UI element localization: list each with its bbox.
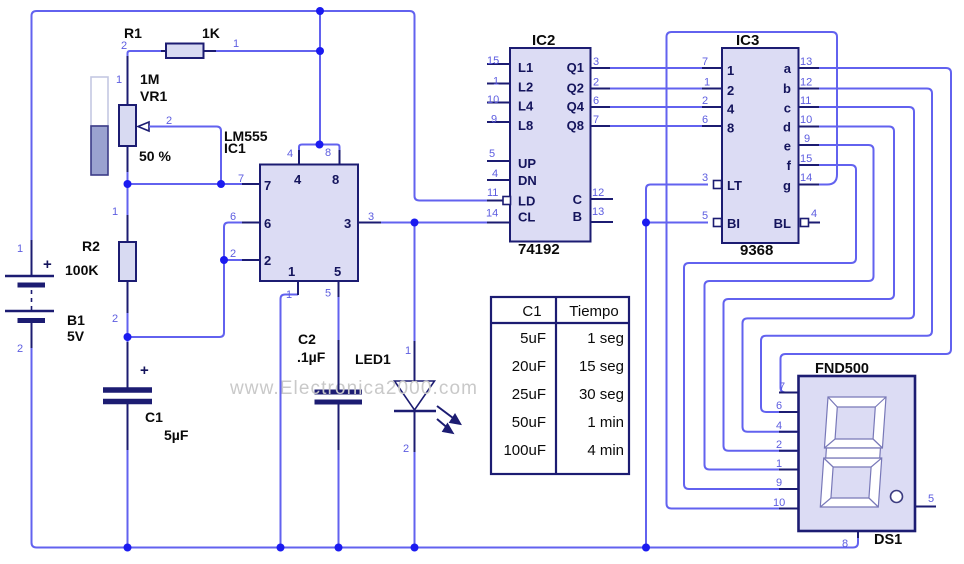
- wire into IC1 pin 2: [224, 259, 260, 261]
- svg-text:L1: L1: [518, 60, 533, 75]
- svg-text:L4: L4: [518, 99, 534, 114]
- svg-text:7: 7: [264, 178, 271, 193]
- pin IC3 1 (7) stub: [702, 67, 722, 69]
- svg-text:14: 14: [486, 208, 498, 220]
- lead LED1 anode: [414, 341, 416, 381]
- svg-text:6: 6: [702, 114, 708, 126]
- wire node VR1-bottom / R2-top to IC1 pin 7: [128, 183, 246, 185]
- node dot LT/BI: [642, 219, 650, 227]
- svg-text:7: 7: [593, 114, 599, 126]
- svg-text:www.Electronica2000.com: www.Electronica2000.com: [229, 378, 478, 399]
- svg-text:CL: CL: [518, 210, 535, 225]
- svg-text:1: 1: [288, 264, 295, 279]
- svg-text:6: 6: [776, 400, 782, 412]
- wire VR1 bottom to R2 top: [127, 146, 129, 215]
- op-amp/timer IC1 LM555 body: [260, 165, 358, 282]
- potentiometer VR1 body: [119, 105, 136, 146]
- pin IC3 b (12) stub: [799, 88, 820, 90]
- wire V+ rail: left border, top rail, down to IC2 pin LD: [32, 11, 489, 241]
- pin DS1 2 stub: [779, 450, 799, 452]
- svg-text:R2: R2: [82, 238, 100, 254]
- battery B1 plate 2 (short thick): [18, 283, 46, 288]
- svg-text:1M: 1M: [140, 71, 159, 87]
- pin DS1 8 stub: [857, 531, 859, 538]
- wire IC3 seg g (pin14) around top to DS1 pin 10: [667, 32, 838, 509]
- svg-text:100K: 100K: [65, 262, 98, 278]
- node dot ground LED1: [411, 544, 419, 552]
- svg-text:DN: DN: [518, 173, 537, 188]
- svg-text:10: 10: [800, 114, 812, 126]
- wire R1 right lead to V+ node: [204, 50, 321, 52]
- display DS1 FND500 body: [799, 376, 916, 531]
- wire IC3 seg e (pin9) to DS1 pin 1: [705, 145, 874, 470]
- svg-text:1: 1: [776, 458, 782, 470]
- svg-text:7: 7: [779, 381, 785, 393]
- svg-text:9: 9: [491, 114, 497, 126]
- svg-text:50uF: 50uF: [512, 414, 546, 431]
- svg-text:5: 5: [489, 148, 495, 160]
- svg-text:LT: LT: [727, 178, 742, 193]
- pin DS1 10 stub: [779, 508, 799, 510]
- pin DS1 6 stub: [779, 411, 799, 413]
- svg-text:VR1: VR1: [140, 88, 167, 104]
- resistor R2 body: [119, 242, 136, 281]
- svg-text:1 seg: 1 seg: [587, 330, 624, 347]
- wire IC1 pin 1 to ground rail: [281, 295, 299, 548]
- pin IC1 7 stub: [242, 183, 260, 185]
- svg-text:2: 2: [264, 253, 271, 268]
- svg-text:2: 2: [121, 40, 127, 52]
- svg-text:3: 3: [368, 211, 374, 223]
- lead VR1 bottom: [127, 146, 129, 172]
- svg-text:15 seg: 15 seg: [579, 358, 624, 375]
- pin IC2 CL (14) stub: [487, 222, 510, 224]
- svg-text:DS1: DS1: [874, 532, 902, 548]
- svg-text:c: c: [784, 101, 791, 116]
- wire IC3 seg d (pin10) to DS1 pin 2: [724, 127, 895, 451]
- svg-text:UP: UP: [518, 156, 536, 171]
- svg-text:5µF: 5µF: [164, 427, 189, 443]
- LED1 light arrow 2: [437, 419, 450, 430]
- wire R1 left lead corner to VR1 top: [128, 51, 167, 58]
- wire IC3 seg f (pin15) to DS1 pin 9: [684, 165, 856, 489]
- wire C2 bottom to ground rail: [338, 450, 340, 548]
- pin IC2 LD (11) stub: [487, 200, 503, 202]
- table C1/Tiempo frame: [491, 297, 629, 474]
- pin IC2 LD bubble: [503, 197, 511, 205]
- lead LED1 cathode: [414, 411, 416, 452]
- LED1 light arrow 1: [437, 406, 457, 421]
- IC2 74192 body: [510, 48, 591, 242]
- svg-text:12: 12: [592, 187, 604, 199]
- wire R2 bottom to C1 node: [127, 313, 129, 342]
- svg-text:13: 13: [800, 56, 812, 68]
- battery B1 plate 1 (long): [5, 275, 54, 277]
- svg-text:5: 5: [334, 264, 341, 279]
- pin DS1 4 stub: [779, 431, 799, 433]
- svg-text:a: a: [784, 61, 792, 76]
- svg-text:BL: BL: [774, 216, 791, 231]
- lead VR1 top: [127, 56, 129, 105]
- svg-text:11: 11: [487, 187, 498, 199]
- svg-text:1: 1: [704, 77, 710, 89]
- node dot VR1 bottom / pin7: [124, 180, 132, 188]
- svg-text:LED1: LED1: [355, 351, 391, 367]
- pin IC1 1 stub: [297, 281, 299, 295]
- svg-text:5uF: 5uF: [520, 330, 546, 347]
- svg-text:15: 15: [487, 55, 499, 67]
- pin IC2 L1 (15) stub: [487, 63, 510, 65]
- svg-text:14: 14: [800, 172, 812, 184]
- wire IC3 seg c (pin11) to DS1 pin 4: [743, 107, 915, 432]
- wire IC2 Q8 to IC3 pin 8: [608, 125, 702, 127]
- svg-text:4: 4: [492, 168, 498, 180]
- svg-text:5V: 5V: [67, 328, 85, 344]
- svg-text:.1µF: .1µF: [297, 349, 326, 365]
- pin DS1 7 stub: [779, 392, 799, 394]
- svg-text:50 %: 50 %: [139, 148, 171, 164]
- svg-text:2: 2: [17, 343, 23, 355]
- svg-text:Q8: Q8: [567, 118, 584, 133]
- svg-text:3: 3: [702, 172, 708, 184]
- node dot V+ top rail: [316, 7, 324, 15]
- svg-text:13: 13: [592, 206, 604, 218]
- wire IC2 Q2 to IC3 pin 2: [608, 88, 702, 90]
- pin IC3 BI bubble: [714, 219, 722, 227]
- pin IC1 8 stub: [339, 150, 341, 165]
- svg-text:8: 8: [332, 172, 339, 187]
- svg-text:15: 15: [800, 153, 812, 165]
- svg-text:2: 2: [776, 439, 782, 451]
- svg-text:L2: L2: [518, 80, 533, 95]
- pin IC2 Q4 (6) stub: [591, 106, 611, 108]
- node dot R2/C1: [124, 333, 132, 341]
- wire IC2 Q4 to IC3 pin 4: [608, 106, 702, 108]
- IC3 9368 body: [722, 48, 799, 243]
- pin IC2 Q8 (7) stub: [591, 125, 611, 127]
- svg-text:IC3: IC3: [736, 32, 759, 49]
- pin DS1 1 stub: [779, 469, 799, 471]
- svg-text:1: 1: [17, 243, 23, 255]
- svg-text:12: 12: [800, 77, 812, 89]
- svg-text:C: C: [573, 192, 583, 207]
- wire ground rail: left border bottom, bottom rail to DS1 pin 8: [32, 347, 859, 548]
- svg-text:2: 2: [112, 313, 118, 325]
- svg-text:C1: C1: [522, 303, 541, 320]
- svg-text:f: f: [787, 158, 792, 173]
- wire IC3 pin BI to LT/ground net: [646, 222, 708, 224]
- pin IC1 2 stub: [242, 259, 260, 261]
- node dot ground C1: [124, 544, 132, 552]
- svg-text:1: 1: [116, 74, 122, 86]
- svg-text:1: 1: [233, 38, 239, 50]
- svg-text:IC2: IC2: [532, 32, 555, 49]
- svg-text:e: e: [784, 139, 791, 154]
- svg-text:3: 3: [593, 56, 599, 68]
- svg-text:1: 1: [493, 76, 499, 88]
- svg-text:LD: LD: [518, 194, 535, 209]
- pin IC2 DN (4) stub: [487, 179, 510, 181]
- svg-text:+: +: [140, 362, 149, 379]
- pin IC3 c (11) stub: [799, 106, 820, 108]
- svg-text:6: 6: [230, 211, 236, 223]
- VR1 slider indicator (upper empty part): [91, 77, 108, 126]
- pin IC2 Q2 (2) stub: [591, 88, 611, 90]
- node dot ground LT/BI: [642, 544, 650, 552]
- svg-text:5: 5: [325, 288, 331, 300]
- lead B1 top: [31, 240, 33, 275]
- svg-text:L8: L8: [518, 118, 533, 133]
- pin DS1 9 stub: [779, 488, 799, 490]
- svg-text:Q4: Q4: [567, 99, 585, 114]
- wire IC3 seg a (pin13) to DS1 pin 7: [781, 68, 952, 393]
- LED1 cathode bar: [394, 410, 436, 413]
- svg-text:BI: BI: [727, 216, 740, 231]
- svg-text:4: 4: [776, 420, 782, 432]
- pin IC3 g (14) stub: [799, 184, 820, 186]
- svg-text:4 min: 4 min: [587, 442, 624, 459]
- node dot IC1 pin2/6: [220, 256, 228, 264]
- svg-text:1: 1: [405, 345, 411, 357]
- svg-text:B1: B1: [67, 312, 85, 328]
- svg-text:9: 9: [804, 133, 810, 145]
- wire IC1 pin 6 to pin 2: [224, 223, 260, 261]
- node dot IC1 pin3 / CL / LED1: [411, 219, 419, 227]
- wire IC1 pin 5 to C2: [338, 296, 340, 340]
- svg-text:Q1: Q1: [567, 60, 584, 75]
- VR1 wiper arrow: [138, 122, 149, 131]
- battery B1 plate 3 (long): [5, 310, 54, 312]
- LED1 triangle: [395, 381, 435, 410]
- pin IC2 C (12) stub: [591, 198, 614, 200]
- svg-text:9368: 9368: [740, 242, 773, 259]
- svg-text:Q2: Q2: [567, 81, 584, 96]
- svg-text:IC1: IC1: [224, 140, 246, 156]
- svg-text:2: 2: [230, 248, 236, 260]
- pin IC1 5 stub: [338, 281, 340, 297]
- pin IC3 f (15) stub: [799, 164, 820, 166]
- lead R2 bottom: [127, 281, 129, 313]
- pin IC3 BL (4) stub: [809, 222, 821, 224]
- pin IC3 a (13) stub: [799, 67, 820, 69]
- svg-text:2: 2: [403, 443, 409, 455]
- svg-text:g: g: [783, 178, 791, 193]
- svg-text:FND500: FND500: [815, 361, 869, 377]
- capacitor C2 plates: [315, 390, 363, 395]
- pin IC3 BL bubble: [801, 219, 809, 227]
- battery B1 dashed middle: [31, 290, 33, 310]
- node dot wiper / pin7: [217, 180, 225, 188]
- svg-text:3: 3: [344, 216, 351, 231]
- pin IC3 8 (6) stub: [702, 125, 722, 127]
- svg-text:10: 10: [773, 497, 785, 509]
- pin IC2 B (13) stub: [591, 221, 614, 223]
- svg-text:74192: 74192: [518, 241, 560, 258]
- pin IC1 4 stub: [298, 150, 300, 165]
- wire LED1 cathode to ground rail: [414, 452, 416, 548]
- node dot R1/V+: [316, 47, 324, 55]
- svg-text:B: B: [573, 209, 582, 224]
- svg-text:b: b: [783, 81, 791, 96]
- svg-text:11: 11: [800, 95, 811, 107]
- svg-text:6: 6: [593, 95, 599, 107]
- svg-text:2: 2: [593, 77, 599, 89]
- svg-text:5: 5: [702, 210, 708, 222]
- pin IC3 2 (1) stub: [702, 88, 722, 90]
- pin IC3 e (9) stub: [799, 144, 820, 146]
- svg-text:6: 6: [264, 216, 271, 231]
- wire IC1 pin4-pin8 bracket: [299, 145, 340, 153]
- lead R1 left: [161, 50, 166, 52]
- lead R1 right: [204, 50, 217, 52]
- decimal point of DS1: [891, 491, 903, 503]
- wire IC3 pin LT down to ground rail: [646, 185, 708, 548]
- svg-text:8: 8: [325, 147, 331, 159]
- svg-text:1: 1: [727, 63, 734, 78]
- node dot ground C2: [335, 544, 343, 552]
- svg-text:8: 8: [727, 121, 734, 136]
- svg-text:20uF: 20uF: [512, 358, 546, 375]
- wire node pin3 down to LED1 anode: [414, 223, 416, 342]
- lead C2 top: [338, 340, 340, 390]
- VR1 slider indicator (lower filled part): [91, 126, 108, 175]
- svg-text:7: 7: [238, 173, 244, 185]
- svg-text:25uF: 25uF: [512, 386, 546, 403]
- svg-text:4: 4: [294, 172, 302, 187]
- pin IC1 3 stub: [358, 222, 381, 224]
- svg-text:4: 4: [287, 148, 293, 160]
- pin IC3 d (10) stub: [799, 126, 820, 128]
- capacitor C1 plates: [103, 387, 152, 393]
- wire IC1 pin 3 to IC2 pin CL: [362, 222, 488, 224]
- svg-text:Tiempo: Tiempo: [569, 303, 618, 320]
- lead R2 top: [127, 215, 129, 242]
- wire VR1 wiper to pin7 node: [149, 127, 221, 185]
- pin IC3 4 (2) stub: [702, 106, 722, 108]
- node dot ground pin1: [277, 544, 285, 552]
- svg-text:7: 7: [702, 56, 708, 68]
- lead C1 bottom: [127, 404, 129, 450]
- svg-text:5: 5: [928, 493, 934, 505]
- svg-text:4: 4: [727, 102, 735, 117]
- lead B1 bottom: [31, 323, 33, 349]
- wire V+ down to IC1 pins 4/8 bracket: [319, 11, 321, 145]
- svg-text:1: 1: [112, 206, 118, 218]
- svg-text:10: 10: [487, 94, 499, 106]
- svg-text:C1: C1: [145, 409, 163, 425]
- svg-text:4: 4: [811, 208, 817, 220]
- resistor R1 body: [166, 44, 204, 59]
- svg-text:1: 1: [286, 289, 292, 301]
- svg-text:1 min: 1 min: [587, 414, 624, 431]
- wire IC3 seg b (pin12) to DS1 pin 6: [761, 89, 932, 413]
- svg-text:30 seg: 30 seg: [579, 386, 624, 403]
- svg-text:C2: C2: [298, 331, 316, 347]
- wire IC1 pin2/6 node down to C1 node: [128, 260, 225, 337]
- pin IC2 UP (5) stub: [487, 160, 510, 162]
- node dot IC1 pin4/8 bracket: [316, 141, 324, 149]
- pin IC2 L4 (10) stub: [487, 102, 510, 104]
- battery B1 plate 4 (short thick): [18, 318, 46, 323]
- wire IC2 Q1 to IC3 pin 1: [608, 67, 702, 69]
- pin IC1 6 stub: [242, 222, 260, 224]
- svg-text:1K: 1K: [202, 25, 220, 41]
- svg-text:d: d: [783, 120, 791, 135]
- lead C1 top: [127, 342, 129, 388]
- svg-text:R1: R1: [124, 25, 142, 41]
- pin DS1 5 stub: [915, 506, 936, 508]
- pin IC2 L2 (1) stub: [487, 83, 510, 85]
- pin IC3 LT bubble: [714, 181, 722, 189]
- pin IC2 L8 (9) stub: [487, 121, 510, 123]
- 7-segment digit of DS1: [820, 397, 886, 507]
- svg-text:100uF: 100uF: [503, 442, 546, 459]
- svg-text:2: 2: [166, 115, 172, 127]
- svg-text:+: +: [43, 256, 52, 273]
- svg-text:2: 2: [702, 95, 708, 107]
- wire C1 bottom to ground rail: [127, 450, 129, 548]
- lead C2 bottom: [338, 404, 340, 450]
- svg-text:2: 2: [727, 83, 734, 98]
- svg-text:8: 8: [842, 538, 848, 550]
- svg-text:9: 9: [776, 477, 782, 489]
- pin IC2 Q1 (3) stub: [591, 67, 611, 69]
